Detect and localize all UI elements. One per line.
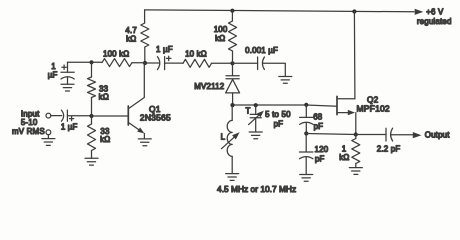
wire node D to coupling cap bbox=[145, 62, 159, 64]
transistor Q2 drain lead bbox=[337, 98, 355, 100]
wire 33k upper to node B bbox=[91, 98, 93, 117]
resistor 100 k vertical bbox=[229, 21, 237, 51]
svg-text:0.001 µF: 0.001 µF bbox=[245, 46, 278, 55]
wire 33k lower to ground bbox=[91, 151, 93, 159]
wire 100k to node D bbox=[132, 62, 145, 64]
svg-text:Input: Input bbox=[21, 109, 40, 118]
trimmer capacitor plates bbox=[250, 114, 261, 117]
resistor 10 k bbox=[183, 59, 212, 67]
svg-text:L: L bbox=[221, 133, 226, 142]
svg-text:1 µF: 1 µF bbox=[61, 122, 78, 131]
ground 33k lower bbox=[85, 158, 98, 165]
node tank trimmer junction bbox=[254, 103, 258, 107]
capacitor 0.001 uF plates bbox=[258, 57, 265, 70]
svg-text:MV2112: MV2112 bbox=[194, 82, 224, 91]
plus sign input cap bbox=[70, 117, 74, 121]
svg-text:5-10: 5-10 bbox=[21, 118, 38, 127]
svg-text:µF: µF bbox=[48, 70, 58, 79]
wire source node to 1k bbox=[355, 135, 357, 139]
node D junction bbox=[143, 61, 147, 65]
svg-text:mV RMS: mV RMS bbox=[12, 127, 45, 136]
ground 1k bbox=[349, 168, 362, 175]
svg-text:pF: pF bbox=[274, 120, 284, 129]
capacitor 1uF coupling plates bbox=[157, 57, 164, 70]
svg-text:kΩ: kΩ bbox=[339, 153, 349, 162]
svg-text:+6 V: +6 V bbox=[426, 7, 444, 16]
wire coil to ground bbox=[231, 156, 233, 173]
arrow inductor L head bbox=[232, 132, 240, 139]
svg-text:5 to 50: 5 to 50 bbox=[265, 110, 291, 119]
ground input bbox=[42, 139, 55, 146]
ground Q1 emitter bbox=[138, 139, 151, 146]
node top rail Q2 drain junction bbox=[352, 9, 356, 13]
capacitor 1uF input plates bbox=[61, 110, 67, 121]
svg-text:kΩ: kΩ bbox=[126, 35, 136, 44]
arrow Q1 emitter bbox=[137, 127, 144, 133]
arrow inductor L line bbox=[222, 136, 236, 149]
wire Q2 source down bbox=[355, 113, 357, 135]
capacitor 2.2 pF plates bbox=[386, 128, 393, 141]
svg-text:kΩ: kΩ bbox=[100, 135, 110, 144]
wire top rail corner to R 4.7k bbox=[144, 10, 146, 23]
wire input bottom terminal to ground bbox=[47, 135, 49, 139]
transistor Q2 channel bar bbox=[336, 96, 338, 114]
wire node C to 0.001uF bbox=[233, 62, 258, 64]
node A junction bbox=[89, 60, 93, 64]
wire 68pF to mid node bbox=[305, 123, 307, 134]
node tank 68pF junction bbox=[304, 103, 308, 107]
transistor Q1 base bar bbox=[127, 106, 129, 125]
wire node A to 100k bbox=[92, 61, 103, 63]
wire top rail to Q2 drain bbox=[353, 12, 356, 99]
svg-text:4.5 MHz or 10.7 MHz: 4.5 MHz or 10.7 MHz bbox=[217, 184, 296, 194]
wire node B to Q1 base bbox=[92, 115, 129, 117]
wire tank to 68pF bbox=[305, 105, 307, 118]
inductor L coil bbox=[227, 120, 232, 156]
transistor Q1 collector bbox=[128, 63, 144, 109]
wire source node to 2.2pF bbox=[356, 134, 386, 136]
svg-text:kΩ: kΩ bbox=[215, 34, 225, 43]
wire coupling cap to 10k bbox=[165, 62, 183, 64]
wire node C to varactor bbox=[232, 63, 234, 75]
wire top rail to 100k bbox=[231, 11, 233, 21]
node 68pF 120pF junction bbox=[304, 131, 308, 135]
wire tank line to Q2 gate bbox=[233, 105, 338, 106]
wire tank node to coil bbox=[231, 105, 233, 120]
svg-text:Output: Output bbox=[425, 131, 450, 140]
svg-text:2N3565: 2N3565 bbox=[140, 113, 171, 123]
wire 0.001uF to ground corner bbox=[263, 63, 286, 76]
ground 0.001uF bbox=[279, 77, 292, 84]
terminal input top bbox=[46, 113, 51, 118]
svg-text:MPF102: MPF102 bbox=[357, 104, 390, 114]
wire tank to trimmer bbox=[255, 105, 257, 114]
wire node A to 33k upper bbox=[91, 62, 93, 77]
resistor 100 k horizontal bbox=[102, 59, 132, 67]
svg-text:100 kΩ: 100 kΩ bbox=[103, 49, 129, 58]
node source junction bbox=[354, 132, 358, 136]
wire mid node to source node bbox=[306, 134, 356, 135]
terminal input bottom bbox=[46, 130, 51, 135]
svg-text:pF: pF bbox=[315, 155, 325, 164]
wire trimmer to ground bbox=[255, 118, 257, 132]
svg-text:pF: pF bbox=[314, 122, 324, 131]
resistor 4.7 k bbox=[141, 23, 149, 47]
wire bypass cap stub bbox=[67, 62, 69, 72]
svg-text:T: T bbox=[245, 106, 250, 115]
arrow Q2 source bbox=[348, 110, 355, 115]
transistor Q1 emitter bbox=[128, 122, 142, 132]
svg-text:1: 1 bbox=[342, 144, 347, 153]
plus sign bypass cap bbox=[62, 65, 66, 69]
wire 120pF to ground bbox=[305, 157, 307, 174]
svg-text:10 kΩ: 10 kΩ bbox=[185, 50, 207, 59]
node C junction bbox=[230, 61, 234, 65]
ground trimmer bbox=[249, 132, 262, 139]
node top rail 100k junction bbox=[230, 9, 234, 13]
svg-text:2.2 pF: 2.2 pF bbox=[377, 145, 401, 154]
node tank varactor junction bbox=[230, 103, 234, 107]
wire R4.7k to node D bbox=[144, 47, 146, 63]
svg-text:120: 120 bbox=[315, 145, 329, 154]
svg-text:kΩ: kΩ bbox=[99, 92, 109, 101]
capacitor 120 pF plates bbox=[300, 152, 313, 159]
svg-text:1 µF: 1 µF bbox=[156, 45, 173, 54]
wire 2.2pF to output bbox=[391, 134, 413, 136]
wire 10k to node C bbox=[212, 62, 233, 64]
varactor MV2112 triangle bbox=[226, 79, 240, 93]
wire varactor to tank node bbox=[232, 93, 234, 105]
arrow +6V rail bbox=[415, 9, 424, 15]
ground 120pF bbox=[300, 175, 313, 182]
capacitor 1uF bypass plates bbox=[61, 72, 74, 79]
arrow trimmer line bbox=[249, 114, 260, 124]
plus sign coupling cap bbox=[167, 56, 171, 60]
resistor 1 k bbox=[352, 139, 360, 164]
node B junction bbox=[89, 114, 93, 118]
ground bypass cap bbox=[61, 84, 74, 91]
wire input terminal to cap bbox=[51, 115, 62, 117]
wire 100k to node C bbox=[232, 51, 234, 63]
wire input cap to node B bbox=[67, 115, 91, 117]
svg-text:68: 68 bbox=[313, 113, 323, 122]
resistor 33 k lower bbox=[88, 124, 96, 151]
wire +6V supply rail bbox=[145, 10, 414, 12]
transistor Q2 source lead bbox=[337, 112, 351, 114]
arrow output bbox=[413, 132, 422, 138]
wire node A to bypass cap bbox=[68, 61, 92, 63]
capacitor 68 pF plates bbox=[300, 117, 313, 124]
wire bypass cap to ground bbox=[67, 77, 69, 84]
ground inductor bbox=[226, 174, 239, 181]
varactor MV2112 cathode bars bbox=[226, 76, 239, 79]
arrow trimmer head bbox=[257, 111, 264, 118]
resistor 33 k upper bbox=[88, 77, 96, 98]
wire mid node to 120pF bbox=[305, 134, 307, 152]
wire 1k to ground bbox=[355, 164, 357, 168]
svg-text:regulated: regulated bbox=[417, 17, 452, 26]
wire Q1 emitter to ground bbox=[143, 134, 145, 139]
wire node B to 33k lower bbox=[91, 116, 93, 124]
